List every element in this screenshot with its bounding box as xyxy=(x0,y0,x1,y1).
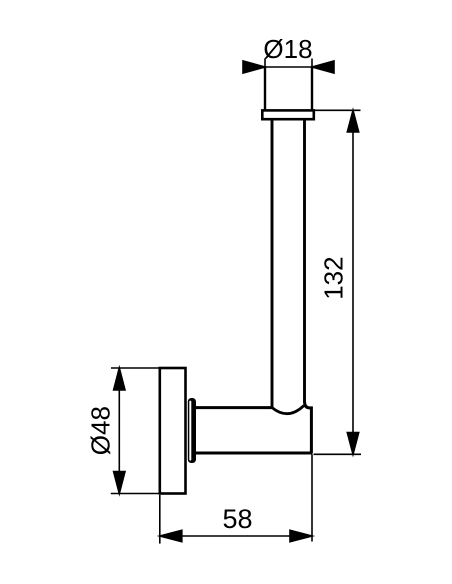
extension line 132 bottom xyxy=(314,453,362,455)
label Ø18 xyxy=(263,34,312,64)
dimension line Ø18 xyxy=(243,61,334,73)
svg-text:Ø48: Ø48 xyxy=(86,406,116,455)
extension line 132 top xyxy=(314,109,361,111)
extension line 58 right xyxy=(311,455,313,542)
dimension line Ø48 xyxy=(114,368,125,494)
extension lines Ø48 xyxy=(111,368,159,494)
svg-text:132: 132 xyxy=(319,256,349,299)
label 58 xyxy=(222,504,252,534)
svg-text:58: 58 xyxy=(222,504,252,534)
cap (top knob, Ø18) xyxy=(265,66,312,111)
extension line 58 left xyxy=(159,495,161,544)
rod-arm fillet xyxy=(272,406,304,414)
label 132 xyxy=(319,256,349,299)
dimension line 132 xyxy=(347,110,358,454)
label Ø48 xyxy=(86,406,116,455)
collar (wall fixing cover) xyxy=(188,398,196,463)
svg-text:Ø18: Ø18 xyxy=(263,34,312,64)
wall plate (rose Ø48) xyxy=(160,368,186,494)
arm (horizontal tube) xyxy=(196,401,313,453)
extension lines Ø18 xyxy=(265,59,312,68)
rod (vertical tube) xyxy=(272,119,305,408)
dimension line 58 xyxy=(160,530,312,541)
cap flange xyxy=(262,110,314,119)
